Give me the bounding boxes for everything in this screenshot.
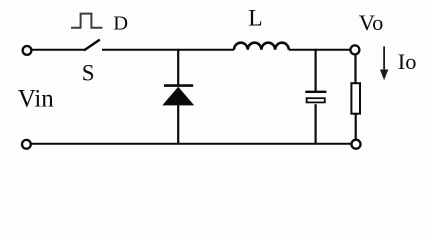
capacitor C (output filter): [305, 49, 326, 144]
terminal Vin+ (top-left): [23, 46, 32, 55]
wire: terminal to load resistor: [354, 55, 356, 84]
terminal Vo+ (top-right): [350, 45, 359, 54]
wire: switch to inductor (switch node): [102, 49, 234, 51]
svg-text:Io: Io: [398, 49, 417, 74]
arrow Io (load current, downward): [380, 46, 388, 80]
svg-text:Vin: Vin: [18, 86, 54, 113]
inductor L (4 humps): [234, 43, 289, 50]
svg-text:Vo: Vo: [359, 10, 384, 35]
svg-text:D: D: [113, 12, 128, 34]
resistor R (load): [351, 83, 360, 114]
pulse waveform symbol (gate drive): [71, 14, 102, 28]
wire: Vin+ to switch pivot: [32, 49, 85, 51]
wire: inductor to output terminal: [289, 49, 351, 51]
wire: bottom rail: [31, 143, 351, 145]
svg-text:L: L: [248, 6, 262, 32]
switch S (open blade): [84, 40, 100, 51]
terminal Vo- (bottom-right): [352, 140, 361, 149]
terminal Vin- (bottom-left): [22, 140, 31, 149]
diode D1 (freewheeling, cathode up): [162, 49, 194, 144]
wire: load resistor to bottom terminal: [355, 114, 357, 140]
svg-text:S: S: [82, 61, 95, 86]
